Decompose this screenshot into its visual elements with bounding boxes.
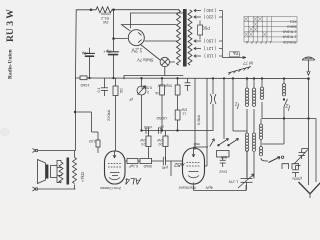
svg-text:L 2'N: L 2'N	[229, 180, 238, 185]
svg-text:2 TKDV6: 2 TKDV6	[283, 30, 297, 34]
svg-text:l₁: l₁	[234, 102, 239, 111]
right hand RF section	[210, 78, 320, 198]
speaker assembly	[33, 149, 77, 192]
tap 110	[194, 55, 201, 58]
svg-text:F: F	[265, 40, 267, 44]
svg-text:Bisher: Bisher	[286, 25, 296, 29]
capacitor C1 electrolytic 4u	[89, 48, 91, 53]
svg-text:2: 2	[147, 90, 149, 94]
svg-text:0,1μF: 0,1μF	[128, 164, 138, 168]
output transformer secondary winding	[73, 158, 77, 184]
switch arrow S1	[220, 139, 229, 145]
svg-text:L1: L1	[182, 112, 186, 116]
node top-left junction	[90, 9, 92, 11]
tap 240	[194, 9, 201, 12]
node top-right junction	[113, 9, 115, 11]
wire horizontal y118.5	[262, 118, 316, 120]
svg-text:( 220 ): ( 220 )	[203, 15, 216, 20]
resistor 0,3M vertical f	[148, 131, 150, 137]
svg-text:.4μ: .4μ	[81, 51, 88, 56]
svg-text:4μN: 4μN	[206, 186, 213, 191]
tap 150	[194, 40, 201, 43]
coil L4 single	[261, 79, 263, 88]
wire antenna rail x308.5	[308, 79, 310, 156]
speaker terminal top	[35, 149, 37, 151]
tap 220	[194, 16, 201, 19]
svg-text:220kA: 220kA	[106, 109, 111, 121]
svg-text:RU 3 W: RU 3 W	[5, 9, 16, 42]
speaker cone	[38, 160, 46, 184]
output transformer core	[67, 158, 70, 185]
svg-text:DW: DW	[140, 138, 146, 142]
switch arrow right of V3 top	[210, 139, 215, 147]
wire tap collector	[223, 11, 229, 58]
ground chassis hatched (M77)	[228, 67, 251, 75]
svg-text:0,02: 0,02	[89, 139, 96, 143]
wire left rail x75 lower	[75, 78, 77, 151]
svg-text:5Ω: 5Ω	[120, 88, 124, 93]
svg-text:Drv2: Drv2	[219, 170, 227, 174]
wire tube V1 bottom diagonal to lamp	[141, 45, 161, 61]
label R1 values	[101, 12, 111, 25]
svg-text:Skala 7V: Skala 7V	[137, 58, 154, 63]
switch below L5	[283, 99, 285, 101]
svg-text:μ500≤: μ500≤	[292, 177, 302, 181]
switch arrow S2	[230, 139, 239, 145]
svg-text:μF: μF	[129, 98, 133, 102]
svg-text:50рF 1kV: 50рF 1kV	[157, 84, 172, 88]
wire x316	[315, 119, 317, 183]
tube V3 ABC1	[183, 148, 205, 184]
spark gap on x213	[212, 78, 214, 94]
resistor 0,02 small above AL4	[97, 132, 99, 140]
resistor 1M vertical g	[165, 131, 167, 137]
svg-text:≈7kΩ: ≈7kΩ	[80, 172, 85, 182]
svg-text:1 TKDV6: 1 TKDV6	[283, 35, 297, 39]
resistor 1k vertical a	[161, 78, 163, 85]
table texts	[245, 19, 296, 43]
resistor 10kOhm (box on bus left end)	[80, 76, 87, 80]
svg-text:500: 500	[221, 155, 227, 159]
node bus junctions	[89, 77, 91, 79]
table X marks	[244, 17, 248, 21]
resistor box row i	[127, 158, 138, 163]
svg-text:F: F	[255, 40, 257, 44]
svg-text:( 110 ): ( 110 )	[204, 54, 216, 59]
capacitor 500 boxed	[217, 151, 230, 158]
wire stub x171 down	[170, 161, 172, 176]
svg-text:RV6VD6: RV6VD6	[283, 40, 296, 44]
svg-text:.8μ+: .8μ+	[103, 49, 112, 54]
svg-text:( 150 ): ( 150 )	[203, 39, 216, 44]
wire left rail x75 upper	[75, 10, 78, 78]
transformer T1 core	[183, 9, 187, 67]
svg-text:TA: TA	[232, 51, 238, 56]
wire y131 stub	[233, 130, 247, 132]
capacitor 50pF below bus	[187, 78, 189, 82]
capacitor series row (vertical plates)	[162, 157, 164, 166]
svg-text:( 127 ): ( 127 )	[203, 46, 216, 51]
svg-text:1,2V: 1,2V	[131, 46, 142, 52]
wire x233	[232, 78, 234, 131]
svg-text:M 77: M 77	[242, 61, 253, 66]
lamp dial (circle with X)	[160, 57, 169, 66]
svg-text:Radio-Union: Radio-Union	[8, 49, 14, 79]
wire bottom row y161	[125, 160, 163, 162]
svg-text:Wachband: Wachband	[179, 186, 196, 190]
capacitor inline u0	[157, 127, 159, 133]
resistor box row j	[140, 158, 152, 163]
wire x224	[223, 78, 225, 139]
svg-text:AB2: AB2	[174, 161, 185, 167]
svg-text:0,1: 0,1	[97, 88, 101, 93]
transformer T1 secondary winding	[188, 10, 192, 65]
table tube complement	[244, 17, 297, 43]
fuse F1	[198, 25, 203, 35]
svg-text:μ0: μ0	[159, 125, 163, 129]
capacitor 500 right	[292, 169, 299, 171]
wire bottom return y190.5	[194, 185, 247, 191]
wire mains lead arrow	[228, 56, 246, 58]
speaker driver box	[51, 166, 58, 178]
wire row C y130.5	[142, 130, 214, 132]
ground earth arrow big	[299, 182, 320, 194]
transformer T1 primary winding	[177, 10, 181, 65]
svg-text:≠500: ≠500	[144, 125, 152, 129]
svg-text:KC1: KC1	[290, 19, 297, 23]
svg-text:AL4: AL4	[125, 176, 142, 186]
svg-text:UΩ0Ω: UΩ0Ω	[156, 116, 167, 120]
capacitor staple A	[282, 164, 289, 169]
wire rail x207	[206, 78, 208, 166]
resistor 0,15M vertical	[115, 78, 117, 86]
tube V1 rectifier (circle)	[128, 30, 144, 46]
resistor R1 (zigzag, top)	[96, 7, 112, 13]
output transformer primary winding	[59, 162, 63, 183]
svg-text:μ40: μ40	[162, 166, 168, 170]
svg-text:1: 1	[269, 40, 271, 44]
wire branch y112	[74, 111, 76, 113]
svg-text:( 240 ): ( 240 )	[203, 8, 216, 13]
wire main bus y78.5	[76, 77, 81, 79]
svg-text:10kΩ: 10kΩ	[80, 83, 89, 87]
svg-text:10000: 10000	[101, 12, 111, 16]
wire L1 y75.5	[124, 76, 183, 80]
title Radio-Union RU 3 W	[5, 9, 16, 79]
switch band thick arrow	[269, 157, 281, 163]
wire rail x195 to tube V3	[194, 78, 196, 150]
svg-text:l₂: l₂	[285, 104, 290, 113]
svg-text:50kΩ: 50kΩ	[143, 164, 152, 168]
svg-text:5,6kA: 5,6kA	[196, 114, 201, 125]
capacitor C2 electrolytic 8u	[108, 51, 119, 53]
wire tube V1 top-left to y24.6 line	[122, 25, 177, 31]
tube AL4	[105, 151, 126, 184]
wire y13 line	[131, 13, 184, 28]
svg-text:DW: DW	[181, 108, 187, 112]
svg-text:Ω0: Ω0	[158, 142, 163, 146]
capacitor staple B	[292, 164, 299, 169]
wire tube V1 right to transformer	[145, 40, 177, 42]
svg-text:DW: DW	[157, 138, 163, 142]
resistor vertical e	[175, 110, 180, 120]
svg-text:2×m.Chassis: 2×m.Chassis	[100, 186, 121, 190]
coil L6 lower single	[260, 119, 262, 125]
coil L3 lower pair	[245, 133, 248, 136]
svg-text:Ω3: Ω3	[141, 142, 146, 146]
resistor 2k vertical d	[177, 78, 179, 85]
svg-text:P50: P50	[202, 26, 210, 31]
coil L5 right	[283, 79, 285, 84]
potentiometer 50k (circle with arrow)	[141, 78, 143, 86]
smudge bottom left	[0, 128, 10, 137]
svg-text:F: F	[251, 40, 253, 44]
tuning capacitor main	[246, 150, 248, 178]
svg-text:0,5ΩW: 0,5ΩW	[140, 86, 152, 90]
wire rail x113 upper	[113, 10, 115, 51]
wire y144 link	[262, 143, 284, 145]
tap 127	[194, 47, 201, 50]
capacitor inline 500	[145, 127, 147, 133]
antenna symbol top right	[302, 57, 315, 76]
svg-text:2W: 2W	[103, 20, 109, 24]
capacitor 0,1 below bus	[104, 78, 106, 88]
wire grid feed to tube V1	[114, 38, 128, 40]
svg-text:F: F	[260, 40, 262, 44]
svg-text:R1-2: R1-2	[101, 16, 109, 20]
coil L3 upper pair	[246, 79, 248, 89]
svg-text:mкΩ: mкΩ	[193, 142, 200, 146]
trimmer capacitor right	[299, 152, 306, 154]
wire top bus	[76, 9, 96, 11]
speaker terminal bottom	[35, 188, 37, 190]
svg-text:1k: 1k	[155, 91, 159, 95]
